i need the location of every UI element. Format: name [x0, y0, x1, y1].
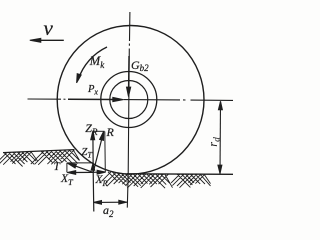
force G_b2 arrow — [128, 56, 130, 88]
hub outer circle — [101, 72, 157, 128]
label X_R — [96, 175, 108, 188]
moment arc M_k — [78, 47, 107, 80]
velocity arrow v — [40, 39, 64, 41]
label r_d rotated — [206, 137, 223, 147]
resultant R arrow — [93, 133, 103, 172]
horizontal center line — [28, 99, 234, 100]
ground line right — [127, 173, 233, 176]
label Z_R — [85, 122, 97, 137]
ground hatching left B — [31, 150, 80, 165]
label P_x — [88, 85, 98, 97]
ground line left — [3, 150, 74, 153]
force P_x arrow — [68, 98, 113, 100]
wheel outer circle — [57, 26, 204, 175]
dimension a_2 — [93, 201, 127, 203]
label v — [44, 18, 53, 39]
ground hatching left A — [0, 151, 37, 166]
parallelogram completion top — [93, 130, 105, 132]
reaction Z_R arrow with a2 extension line — [92, 132, 95, 212]
T-parallelogram left completion — [66, 163, 68, 173]
reaction X_R arrow — [93, 171, 98, 173]
label T — [54, 162, 60, 174]
vertical center line — [127, 12, 130, 208]
hub inner circle — [110, 81, 148, 119]
dimension r_d — [219, 102, 222, 174]
reaction X_T arrow — [74, 171, 93, 173]
T-parallelogram top completion — [67, 162, 93, 164]
label G_b2 — [131, 59, 149, 73]
parallelogram completion right — [104, 132, 107, 173]
label a_2 — [103, 204, 114, 219]
ground hatching right D — [171, 174, 210, 188]
reaction Z_T arrow — [91, 163, 95, 170]
resultant T arrow — [72, 165, 93, 173]
label M_k — [90, 55, 104, 70]
label Z_T — [82, 148, 92, 160]
ground hatching right C — [101, 172, 172, 188]
label X_T — [61, 174, 73, 187]
label R — [107, 126, 114, 138]
